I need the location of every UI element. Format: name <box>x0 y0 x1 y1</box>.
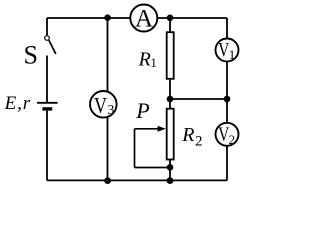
wire: top bus from left corner to right corner <box>47 17 227 19</box>
rheostat R2 body <box>167 109 174 160</box>
svg-text:S: S <box>24 41 38 70</box>
wire: R branch lower (R2 to bottom bus) <box>169 160 171 180</box>
voltmeter V3 circle <box>90 91 117 118</box>
wire: left branch lower segment (battery to bottom corner) <box>46 111 48 181</box>
svg-text:R: R <box>138 49 151 71</box>
svg-text:R: R <box>181 124 194 146</box>
ammeter A circle <box>130 5 157 32</box>
wire: R branch upper (top bus to R1) <box>169 18 171 32</box>
wire: middle branch through V3 <box>107 18 109 180</box>
rheostat wiper arrow shaft <box>135 128 159 130</box>
node: mid link left junction <box>167 96 174 103</box>
voltmeter V1 circle <box>216 39 239 62</box>
wire: right branch (top corner through V1, V2 to bottom corner) <box>226 18 228 180</box>
wire: wiper return vertical <box>134 129 136 168</box>
svg-text:1: 1 <box>150 55 157 70</box>
svg-text:E,r: E,r <box>4 93 31 114</box>
switch S blade <box>49 40 56 54</box>
rheostat wiper arrowhead <box>158 126 166 132</box>
node: wiper return junction <box>167 164 174 171</box>
svg-text:V: V <box>94 93 107 118</box>
resistor R1 body <box>167 32 174 79</box>
svg-text:2: 2 <box>195 133 203 149</box>
wire: middle horizontal link to right branch <box>170 98 227 100</box>
svg-text:A: A <box>135 6 153 33</box>
battery E,r short thick plate (negative) <box>42 107 52 110</box>
switch S pivot circle <box>45 36 50 41</box>
node: top middle junction <box>104 14 111 21</box>
voltmeter V2 circle <box>216 123 239 146</box>
node: bottom middle junction <box>104 177 111 184</box>
battery E,r long plate (positive) <box>37 102 58 104</box>
svg-text:2: 2 <box>229 132 236 147</box>
svg-text:1: 1 <box>229 47 236 62</box>
wire: bottom bus <box>47 179 227 181</box>
node: top R-branch junction <box>167 14 174 21</box>
node: bottom R-branch junction <box>167 177 174 184</box>
wire: left branch between switch and battery <box>46 56 48 103</box>
wire: wiper return horizontal to R branch <box>135 167 171 169</box>
node: mid link right junction <box>224 96 231 103</box>
svg-text:3: 3 <box>107 103 114 118</box>
wire: left branch upper segment (corner to switch) <box>46 18 48 35</box>
wire: R branch between R1 and R2 <box>169 80 171 108</box>
svg-text:P: P <box>135 98 149 123</box>
